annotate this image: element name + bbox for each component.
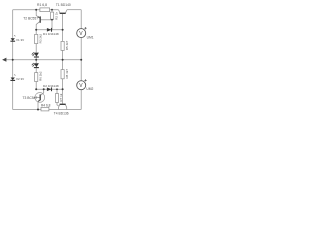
node dot mid-LED <box>35 59 37 61</box>
wire R2 bottom to D1 <box>51 19 53 29</box>
wire D2 horizontal <box>36 88 62 90</box>
diode D2 <box>43 84 59 91</box>
svg-text:V1 3V: V1 3V <box>16 38 24 42</box>
resistor R2 <box>51 11 59 19</box>
wire T1 base column <box>62 14 64 60</box>
wire middle horizontal <box>3 59 82 61</box>
node dot rail-R2 <box>51 9 53 11</box>
svg-text:T3 BC547: T3 BC547 <box>23 96 38 100</box>
wire T3 emitter drop <box>38 100 40 110</box>
transistor T4 <box>54 104 69 115</box>
svg-text:R5 4k7: R5 4k7 <box>65 40 69 50</box>
wire right column lower <box>80 90 82 110</box>
svg-text:T4 BD136: T4 BD136 <box>54 112 69 116</box>
wire R7 top <box>56 89 58 93</box>
wire right column middle <box>80 38 82 81</box>
transistor T1 <box>56 3 71 14</box>
svg-text:R6 2k2: R6 2k2 <box>39 71 43 81</box>
wire T4 base column <box>62 89 64 103</box>
node dot D1 right <box>62 29 64 31</box>
svg-text:R4 6,8: R4 6,8 <box>41 104 51 108</box>
svg-text:R1 6,8: R1 6,8 <box>37 3 47 7</box>
wire mid column R3 to LED1 <box>35 30 37 53</box>
wire T2 emitter drop <box>36 10 40 18</box>
node dot D1 left <box>35 29 37 31</box>
diode D1 <box>43 28 59 36</box>
wire T3 collector riser <box>41 89 44 95</box>
voltmeter UM1 <box>77 27 94 39</box>
wire mid column LED2 to R6 <box>35 68 37 72</box>
resistor R4 <box>41 104 51 111</box>
svg-text:R7 1k: R7 1k <box>59 93 63 101</box>
svg-text:R8 4k7: R8 4k7 <box>65 69 69 79</box>
resistor R8 <box>61 69 69 79</box>
wire T1 collector diagonal <box>65 10 67 13</box>
node dot mid-left <box>12 59 14 61</box>
node dot rail-T2 <box>35 9 37 11</box>
wire T3 base <box>34 96 40 98</box>
node dot rail-T3 <box>37 109 39 111</box>
wire right mid column to D2 <box>62 60 64 90</box>
transistor T2 <box>23 16 40 22</box>
voltmeter UM2 <box>77 79 94 91</box>
svg-text:UM2: UM2 <box>86 87 93 91</box>
input arrow <box>2 58 6 62</box>
node dot D2 R7 <box>56 88 58 90</box>
svg-text:T1 BD140: T1 BD140 <box>56 3 71 7</box>
svg-text:D1 1N4148: D1 1N4148 <box>43 32 59 36</box>
LED D3 <box>32 52 39 57</box>
wire right column upper <box>80 10 82 29</box>
node dot D2 right <box>62 88 64 90</box>
wire T4 emitter diagonal <box>58 105 60 110</box>
resistor R7 <box>55 93 63 102</box>
wire T2 base to R2 <box>41 19 52 21</box>
wire T4 collector diagonal <box>65 105 66 110</box>
LED D4 <box>32 63 39 68</box>
transistor T3 <box>23 93 45 103</box>
zener diode V2 <box>10 74 24 81</box>
svg-text:D2 1N4148: D2 1N4148 <box>43 84 59 88</box>
svg-text:R2 1k: R2 1k <box>55 11 59 19</box>
node dot D2 left <box>35 88 37 90</box>
node dot mid-R <box>62 59 64 61</box>
wire bottom rail <box>13 109 82 111</box>
wire T1 emitter diagonal <box>59 10 60 13</box>
svg-text:T2 BC557: T2 BC557 <box>23 17 38 21</box>
resistor R3 <box>35 33 43 43</box>
resistor R6 <box>35 71 43 81</box>
wire R7 bottom <box>57 102 59 106</box>
wire D1 horizontal <box>36 29 62 31</box>
svg-text:V2 3V: V2 3V <box>16 77 24 81</box>
svg-text:UM1: UM1 <box>87 35 94 39</box>
resistor R1 <box>37 3 50 12</box>
wire left column <box>12 10 14 110</box>
node dot D2 T3 <box>43 88 45 90</box>
resistor R5 <box>61 40 69 50</box>
wire top rail right segment <box>67 9 81 11</box>
wire mid column R6 down <box>35 82 37 90</box>
wire top rail left segment <box>13 9 59 11</box>
zener diode V1 <box>10 35 24 42</box>
wire R2 top <box>51 10 53 12</box>
wire mid column LED1 to LED2 <box>35 58 37 63</box>
wire T2 collector drop <box>36 21 40 29</box>
node dot T2 base R2 <box>51 19 53 21</box>
node dot mid-right <box>80 59 82 61</box>
